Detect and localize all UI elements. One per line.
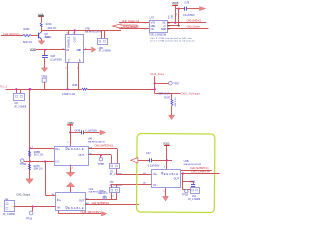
svg-text:Unit 4 COM connected to GN, un: Unit 4 COM connected to GN, unit — [150, 37, 192, 40]
power arrow right of C478 — [100, 130, 106, 135]
svg-text:COM: COM — [161, 28, 166, 31]
svg-text:CH2_Curren: CH2_Curren — [187, 25, 201, 29]
wire cap rail — [175, 8, 199, 10]
svg-text:604 1%: 604 1% — [48, 26, 57, 30]
svg-text:J51: J51 — [192, 195, 197, 198]
svg-text:2N3904: 2N3904 — [44, 35, 51, 39]
svg-text:CH2_Current_LO: CH2_Current_LO — [123, 25, 140, 29]
wire CH2_Current_LO — [119, 25, 150, 31]
svg-text:IN+: IN+ — [56, 147, 61, 151]
pin stubs IC1 bottom — [65, 63, 79, 90]
junction V1 rail — [154, 88, 156, 90]
svg-text:0.60R 0.1%: 0.60R 0.1% — [62, 93, 76, 96]
junction TP18 — [31, 205, 33, 207]
pin 3 stub IC1 top — [66, 30, 68, 34]
capacitor C48 — [42, 50, 62, 64]
transistor Q6 2N3904 — [39, 32, 52, 39]
junction IN- branch to U42 — [44, 160, 46, 162]
resistor R275 vertical divider bottom — [29, 164, 44, 171]
svg-text:IN+: IN+ — [57, 198, 62, 202]
node CH2_SHTD label U42 — [92, 201, 110, 205]
offpage arrow left of C47 — [131, 158, 138, 163]
wire U42 out right — [85, 197, 117, 200]
svg-text:CH2_SHTD(TnC): CH2_SHTD(TnC) — [95, 144, 114, 148]
svg-text:0.1uF/50V: 0.1uF/50V — [50, 57, 62, 61]
testpoint TP48 on OUT wire — [99, 190, 109, 199]
wire enable corner down — [117, 149, 119, 164]
svg-text:J47: J47 — [14, 102, 19, 105]
jumper J71 — [110, 155, 123, 176]
svg-text:U42: U42 — [89, 187, 94, 191]
node CH2_SH label — [187, 19, 202, 23]
capacitor C7B — [183, 1, 195, 17]
wire J72 top to U4B in- — [111, 184, 152, 188]
wire vertical V1 — [154, 76, 156, 93]
wire to TP57 — [155, 83, 169, 85]
svg-text:R201: R201 — [46, 22, 53, 26]
resistor R2B shunt — [62, 84, 87, 96]
svg-text:OUT: OUT — [79, 199, 85, 203]
wire J72 bottom stubs — [112, 193, 117, 200]
node CH2_Level_HI label — [191, 170, 210, 174]
wire connector pin row2 right — [167, 25, 180, 27]
wire stub into U4B top — [164, 160, 167, 170]
jumper J4B top — [98, 30, 112, 52]
svg-text:unit 5 COM connected to 5V pla: unit 5 COM connected to 5V planes. — [150, 40, 196, 43]
wire branch down to U42 IN+ — [46, 162, 56, 197]
capacitor C47 — [138, 151, 172, 168]
op-amp U4B regulator box — [152, 159, 202, 188]
wire connector pin row1 right — [167, 22, 206, 24]
note text below connector — [150, 37, 196, 43]
wire collector node to IC1 row — [41, 30, 121, 32]
wire VDD3 rail to IC1 IN — [36, 49, 66, 51]
wire jumper J71 to U4B in — [117, 169, 152, 175]
svg-text:ENABLE: ENABLE — [66, 36, 70, 47]
svg-text:IN+: IN+ — [153, 172, 158, 176]
svg-text:TP57: TP57 — [173, 83, 180, 86]
junction VDD on row1 — [174, 22, 176, 24]
junction cap C48 — [44, 49, 46, 51]
svg-text:OUT: OUT — [72, 36, 76, 42]
testpoint TP1B — [182, 189, 189, 196]
node VDD3 rail label — [30, 49, 37, 52]
junction rail jumper J47 — [15, 88, 17, 90]
ground arrow bottom of vertical — [26, 176, 34, 184]
svg-text:TP1B: TP1B — [182, 193, 189, 196]
junction rail IC1 stub — [67, 88, 69, 90]
jumper J47 — [14, 89, 27, 108]
svg-text:R247: R247 — [164, 97, 171, 100]
power arrow right of IC1 — [92, 47, 96, 52]
wire U41 IN- — [30, 161, 54, 163]
svg-text:J72: J72 — [110, 181, 115, 184]
capacitor C478 branch — [70, 129, 99, 134]
svg-text:U17: U17 — [150, 16, 155, 20]
svg-text:C0M: C0M — [172, 14, 174, 19]
svg-text:CH2_Output: CH2_Output — [16, 193, 30, 196]
node CH2_Freq label — [150, 72, 164, 76]
testpoint TP18 — [26, 207, 33, 221]
svg-text:BATMON: BATMON — [99, 192, 109, 195]
jumper J48 left — [3, 199, 16, 217]
svg-text:C47: C47 — [146, 151, 151, 155]
svg-text:U4B: U4B — [184, 159, 189, 163]
junction C47 wire U4B — [166, 159, 168, 161]
testpoint TP4B circle — [20, 159, 30, 166]
svg-text:CH2_Freq: CH2_Freq — [150, 72, 164, 76]
svg-text:IN-: IN- — [153, 183, 157, 187]
svg-text:ENABLE: ENABLE — [68, 147, 84, 151]
svg-text:GND: GND — [76, 48, 81, 52]
op-amp U42 regulator box — [56, 187, 107, 211]
junction OUT TP — [100, 154, 102, 156]
jumper J72 — [110, 181, 123, 197]
power arrow up above U42 — [66, 182, 74, 192]
svg-text:C478: C478 — [74, 129, 81, 132]
junction U4B out — [182, 172, 184, 174]
connector U17 — [149, 16, 168, 37]
svg-text:TP4B: TP4B — [20, 163, 27, 166]
svg-text:50R 1%: 50R 1% — [34, 168, 44, 171]
svg-text:0.1uF/50V: 0.1uF/50V — [85, 129, 97, 132]
testpoint TP5B on OUT — [98, 155, 105, 166]
junction IC1 top — [74, 29, 76, 31]
power arrow bottom right of U42 — [102, 212, 107, 216]
svg-text:INA REGULATOR: INA REGULATOR — [85, 30, 103, 33]
ground arrow below C48 — [41, 58, 47, 71]
power flag VDD5 in green box — [163, 142, 170, 160]
svg-text:IN-: IN- — [57, 205, 61, 209]
svg-text:U41: U41 — [88, 136, 93, 140]
op-amp U7B regulator box — [66, 27, 103, 63]
svg-text:IN: IN — [66, 48, 69, 52]
wire CH2_Current_HI — [119, 19, 150, 25]
svg-text:0.1uF/50V: 0.1uF/50V — [148, 163, 160, 167]
junction vertical IN+ — [29, 147, 31, 149]
wire collector vertical — [41, 27, 43, 32]
svg-text:R2B: R2B — [72, 84, 77, 87]
svg-text:PLY_2: PLY_2 — [0, 85, 8, 89]
junction rail main vertical — [29, 88, 32, 91]
wire base wire to R232 — [1, 35, 23, 37]
wire U4B enable right — [181, 170, 212, 172]
node PLY_2 rail label — [0, 85, 8, 89]
svg-text:50R 1%: 50R 1% — [23, 40, 33, 44]
svg-text:OUT: OUT — [174, 176, 180, 180]
wire to U41 IN+ — [30, 147, 54, 149]
svg-text:50R_0.1%: 50R_0.1% — [159, 92, 171, 95]
svg-text:50R 0.1%: 50R 0.1% — [175, 97, 177, 106]
power flag VDB8 above U41 — [67, 122, 74, 146]
svg-text:NC: NC — [68, 58, 70, 62]
ground arrow below U4B — [163, 188, 169, 201]
ground arrow below Q6 — [38, 39, 45, 45]
svg-text:J4B: J4B — [99, 47, 104, 50]
ground arrow below U41 — [66, 165, 74, 177]
svg-text:OUT: OUT — [79, 153, 85, 157]
svg-text:TP18: TP18 — [26, 217, 33, 220]
svg-text:C4B: C4B — [190, 181, 195, 184]
resistor R247 vertical — [164, 94, 177, 113]
jumper J51 — [188, 188, 201, 201]
svg-text:CH8_dB(VFBV): CH8_dB(VFBV) — [81, 210, 101, 214]
svg-text:ENABLE: ENABLE — [164, 172, 179, 176]
pin 8 IC1 left — [62, 48, 64, 50]
wire U4B gnd stub — [163, 188, 165, 194]
wire main rail — [6, 89, 155, 91]
junction vertical IN- — [29, 160, 31, 162]
svg-text:JP_J-SM08: JP_J-SM08 — [99, 51, 112, 53]
pin labels vertical right of connector — [168, 12, 178, 19]
wire B voltage sense — [155, 92, 181, 95]
node CH2_EN net label — [3, 32, 20, 36]
junction V1 wireA — [154, 82, 156, 84]
svg-text:CH2_Current_HI: CH2_Current_HI — [122, 19, 139, 23]
wire U4B out right — [181, 173, 220, 175]
svg-text:CH2_SHTD(TnC): CH2_SHTD(TnC) — [92, 201, 110, 205]
svg-text:U7B: U7B — [85, 27, 90, 31]
svg-text:0.1uF/50V: 0.1uF/50V — [183, 13, 195, 17]
svg-text:CH2_SH(TnC): CH2_SH(TnC) — [187, 19, 202, 23]
svg-text:JP_J-SM08: JP_J-SM08 — [3, 214, 16, 216]
resistor R201 collector — [40, 22, 57, 30]
power arrow top right — [200, 7, 206, 11]
capacitor C4B — [183, 181, 195, 188]
svg-text:JP_J-SM08: JP_J-SM08 — [14, 106, 27, 108]
svg-text:R232: R232 — [24, 27, 31, 31]
node CH2_Current label right — [187, 25, 201, 29]
op-amp U41 regulator box — [55, 136, 106, 165]
highlight green box — [137, 134, 215, 213]
testpoint TP57 circle — [169, 81, 180, 85]
wire R232 to Q6 base — [31, 35, 39, 37]
wire U41 gnd stub — [72, 168, 74, 170]
svg-text:J71: J71 — [110, 170, 115, 173]
svg-text:NC: NC — [151, 28, 154, 31]
wire U41 enable right — [89, 147, 118, 150]
wire U42 enable right — [85, 202, 139, 205]
testpoint TP56 — [41, 75, 48, 89]
resistor R232 — [23, 27, 33, 44]
junction C478 branch — [69, 131, 71, 133]
pin 1 stub IC1 top — [73, 30, 75, 34]
junction top cap rail — [178, 8, 180, 10]
wire U41 out right — [89, 152, 112, 155]
node CH2_EN bottom label — [81, 210, 101, 214]
node CH2_SHTD label U4B — [190, 166, 209, 170]
wire J48 to U42 — [14, 206, 56, 208]
svg-text:TP5B: TP5B — [98, 163, 105, 166]
resistor R2B5 vertical divider top — [29, 151, 45, 157]
wire vertical row2 up — [178, 9, 180, 26]
svg-text:JP_J-SM08: JP_J-SM08 — [188, 199, 201, 201]
node CH2_SHTD label U41 — [95, 144, 114, 148]
ground arrow below R247 — [169, 113, 175, 120]
node CH2_Voltage label — [181, 92, 201, 96]
offpage arrow CH2 current left — [113, 24, 137, 28]
power flag VDDB top right — [172, 2, 179, 23]
svg-text:CH2_Level_HI: CH2_Level_HI — [191, 170, 210, 174]
svg-text:CH2_Voltage: CH2_Voltage — [181, 92, 201, 96]
wire U42 bottom stub — [59, 211, 102, 214]
wire IC1 GND to arrow — [83, 48, 91, 50]
wire emitter stub — [41, 39, 43, 40]
power flag 5V0B top-left — [38, 14, 44, 23]
wire down to jumper J51 — [183, 174, 191, 190]
wire connector pin row3 right — [167, 28, 208, 30]
svg-text:C7B: C7B — [184, 1, 189, 5]
svg-text:TSR 1-2450SM: TSR 1-2450SM — [149, 33, 166, 36]
node CH2_Output label — [16, 193, 30, 196]
svg-text:IN-: IN- — [56, 160, 60, 164]
svg-text:1K 0.1%: 1K 0.1% — [34, 154, 44, 157]
pin A2 label U4B in- — [143, 182, 146, 185]
wire long vertical supply — [29, 89, 31, 176]
pin A1 label U4B in — [143, 172, 146, 175]
